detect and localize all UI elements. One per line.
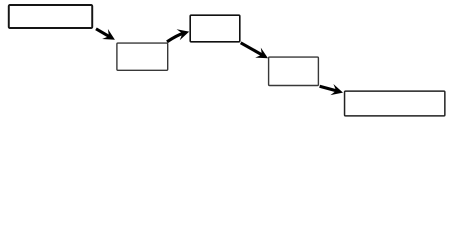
arrow 3: box3 -> box4 xyxy=(241,43,268,59)
process box 2 xyxy=(117,43,168,70)
process box 3 xyxy=(190,15,240,42)
arrow 1: box1 -> box2 xyxy=(96,29,115,40)
process box 1 (top-left) xyxy=(9,5,92,28)
arrow 4: box4 -> box5 xyxy=(320,84,343,95)
process box 4 xyxy=(269,57,319,85)
arrow 2: box2 -> box3 xyxy=(167,29,189,42)
staircase flow diagram xyxy=(0,0,450,123)
process box 5 (bottom-right) xyxy=(345,91,445,116)
